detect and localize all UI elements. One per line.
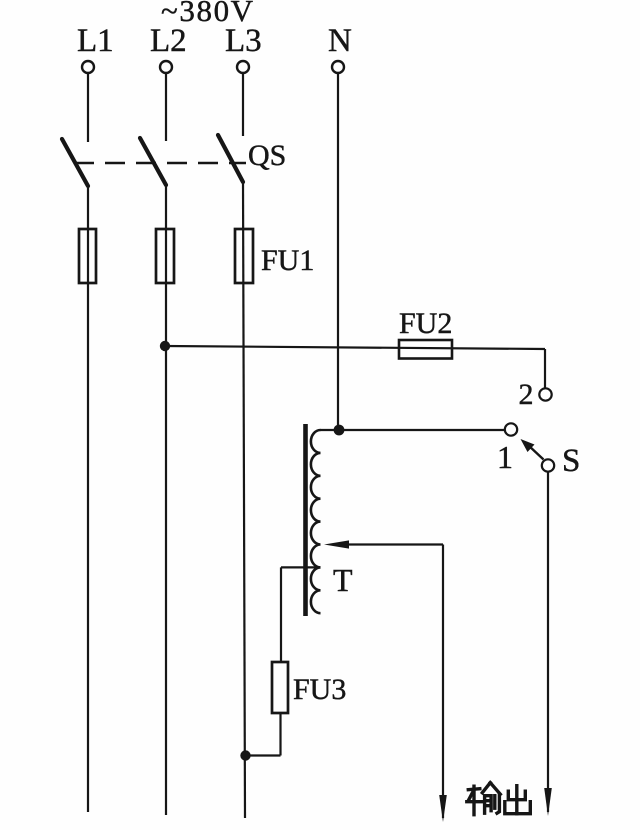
- svg-text:L3: L3: [225, 23, 262, 59]
- svg-text:FU1: FU1: [261, 244, 314, 277]
- svg-text:T: T: [333, 562, 353, 598]
- svg-text:2: 2: [519, 378, 534, 411]
- svg-text:L1: L1: [77, 23, 114, 59]
- svg-text:N: N: [328, 23, 352, 59]
- svg-text:FU3: FU3: [293, 673, 346, 706]
- svg-text:1: 1: [497, 439, 513, 475]
- svg-text:L2: L2: [150, 23, 187, 59]
- svg-text:QS: QS: [248, 139, 286, 172]
- svg-text:FU2: FU2: [399, 307, 452, 340]
- svg-text:S: S: [562, 443, 580, 479]
